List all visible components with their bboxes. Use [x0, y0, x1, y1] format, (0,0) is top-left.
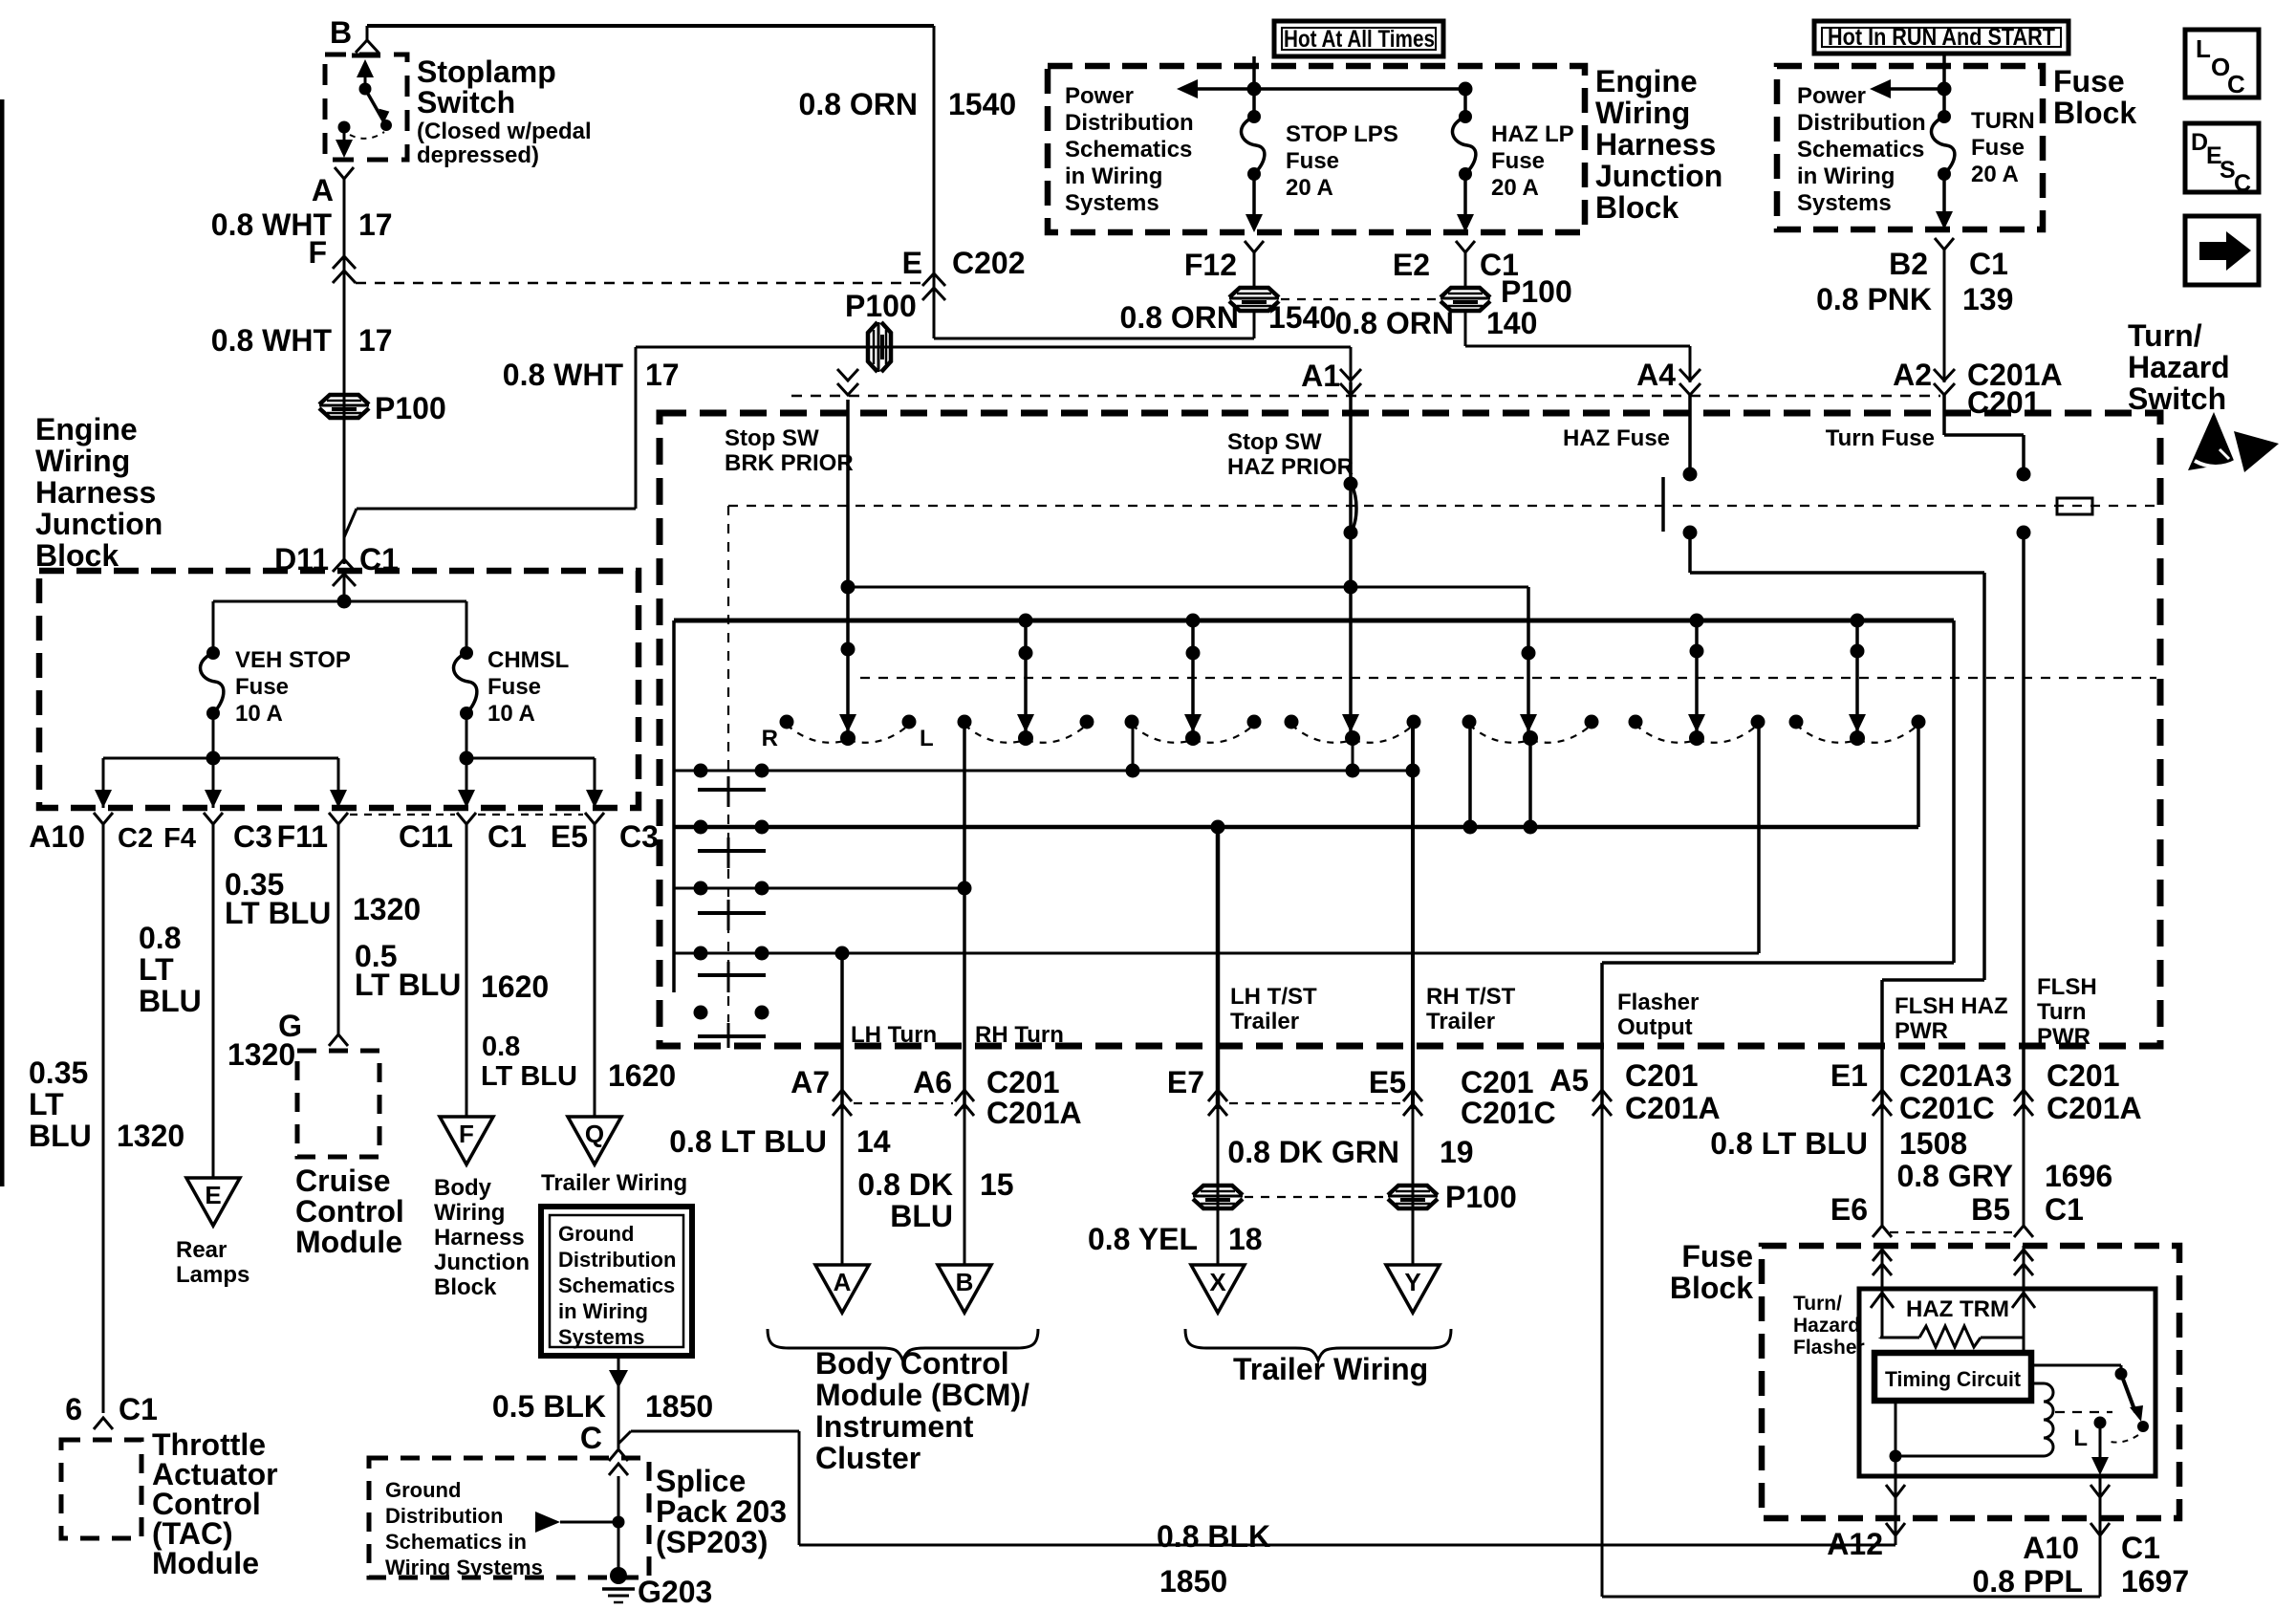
svg-text:Turn Fuse: Turn Fuse — [1826, 425, 1935, 451]
wire RH turn to BCM B — [964, 1109, 966, 1265]
svg-text:C201C: C201C — [1899, 1091, 1995, 1125]
wire B5 to timing box — [2023, 1338, 2025, 1353]
stoplamp switch upper contact bar — [352, 54, 380, 58]
wire HAZ fuse output to E1 riser — [1688, 533, 1692, 573]
dashed P100 mate (trailer) — [1245, 1196, 1386, 1198]
svg-text:Control: Control — [295, 1194, 404, 1229]
svg-text:1540: 1540 — [1268, 300, 1336, 335]
wire D11 into junction — [343, 571, 346, 601]
svg-text:HAZ TRM: HAZ TRM — [1906, 1296, 2009, 1322]
B5 entry chevrons — [2014, 1250, 2033, 1261]
svg-text:C1: C1 — [487, 819, 527, 854]
svg-text:A10: A10 — [2023, 1531, 2079, 1565]
feed wire from RUN/START box — [1942, 54, 1946, 113]
svg-text:C: C — [580, 1421, 602, 1455]
svg-text:A7: A7 — [791, 1065, 830, 1099]
set3 left to row A link — [1132, 722, 1135, 771]
stoplamp switch lower contact dot and arrow to A — [338, 121, 351, 134]
junction block output chevrons — [94, 813, 113, 824]
svg-text:STOP LPS: STOP LPS — [1286, 121, 1398, 147]
switch gang dashed line — [860, 677, 2156, 679]
wire RH Turn output — [963, 722, 966, 1109]
svg-text:Flasher: Flasher — [1793, 1337, 1865, 1359]
svg-text:Trailer Wiring: Trailer Wiring — [1233, 1352, 1428, 1386]
pin B2 / C1 chevron — [1935, 238, 1954, 250]
fuse CHMSL 10A — [460, 646, 473, 660]
svg-text:LH T/ST: LH T/ST — [1230, 984, 1317, 1010]
svg-text:C11: C11 — [399, 819, 453, 854]
svg-text:Systems: Systems — [1797, 190, 1892, 216]
wafer bar 1 — [698, 788, 766, 792]
svg-text:Splice: Splice — [656, 1464, 746, 1498]
svg-text:F4: F4 — [163, 823, 196, 854]
wafer dashed vertical — [727, 506, 729, 1022]
wire RH T/ST trailer output — [1411, 722, 1415, 1109]
svg-text:17: 17 — [645, 358, 680, 392]
svg-text:20 A: 20 A — [1971, 162, 2019, 187]
wire LH Turn output — [840, 953, 844, 1109]
svg-text:E7: E7 — [1167, 1065, 1204, 1099]
svg-text:E: E — [902, 246, 922, 280]
svg-text:C1: C1 — [2045, 1192, 2084, 1227]
svg-text:Distribution: Distribution — [385, 1504, 503, 1528]
svg-text:PWR: PWR — [2037, 1024, 2090, 1050]
svg-text:PWR: PWR — [1895, 1018, 1948, 1044]
svg-text:0.8 ORN: 0.8 ORN — [1120, 300, 1239, 335]
svg-text:Harness: Harness — [1595, 127, 1716, 162]
svg-text:TURN: TURN — [1971, 108, 2035, 134]
svg-text:LT BLU: LT BLU — [481, 1061, 577, 1092]
DESC reference icon — [2185, 123, 2259, 192]
svg-text:C: C — [2234, 170, 2251, 197]
fuse STOP LPS 20A — [1247, 110, 1261, 123]
svg-text:BLU: BLU — [890, 1199, 953, 1233]
wire flasher output to A10 loop — [1601, 1109, 1604, 1597]
svg-text:C201: C201 — [986, 1065, 1060, 1099]
svg-text:Body Control: Body Control — [815, 1346, 1009, 1381]
svg-text:C201: C201 — [1899, 1058, 1973, 1093]
svg-text:Block: Block — [2053, 96, 2136, 130]
svg-text:Stop SW: Stop SW — [725, 425, 819, 451]
bus dropper to set7 — [1855, 620, 1859, 725]
svg-text:0.8 LT BLU: 0.8 LT BLU — [1710, 1126, 1868, 1161]
svg-text:LT BLU: LT BLU — [355, 968, 461, 1002]
relay L contact — [2094, 1417, 2107, 1429]
svg-text:Engine: Engine — [35, 412, 138, 446]
wire B5 into flasher with up arrow — [2023, 1246, 2025, 1338]
connector C1 dashed line (fuse block) — [1890, 1231, 2016, 1233]
pin D11 / C1 chevrons — [333, 559, 356, 572]
E6 entry chevrons — [1873, 1250, 1892, 1261]
svg-text:0.8 DK: 0.8 DK — [857, 1167, 953, 1202]
HAZ fuse switch contacts — [1688, 395, 1692, 474]
flasher solid box — [1859, 1289, 2155, 1476]
svg-text:Trailer: Trailer — [1426, 1009, 1495, 1034]
bus dropper to set3 — [1191, 620, 1195, 725]
cruise control dashed box — [297, 1051, 379, 1157]
svg-text:Harness: Harness — [35, 475, 156, 510]
wire L out of flasher (A10) — [2099, 1475, 2102, 1597]
svg-text:140: 140 — [1486, 306, 1537, 340]
svg-text:VEH STOP: VEH STOP — [235, 647, 351, 673]
connector P100 on WHT horizontal — [868, 322, 877, 372]
svg-text:Stop SW: Stop SW — [1227, 429, 1322, 455]
svg-text:G: G — [278, 1009, 302, 1043]
Hot In RUN And START box — [1814, 21, 2069, 54]
flasher feed bus — [674, 619, 1954, 623]
svg-text:0.8 ORN: 0.8 ORN — [799, 87, 918, 121]
svg-text:Turn/: Turn/ — [1793, 1293, 1842, 1315]
ESD warning symbol — [2188, 412, 2235, 470]
wire F12 to ORN corner — [1253, 312, 1256, 338]
svg-text:E2: E2 — [1393, 248, 1430, 282]
triangle X (trailer) — [1191, 1265, 1245, 1313]
fuse HAZ LP 20A — [1459, 110, 1472, 123]
connector P100 on E2 wire — [1464, 252, 1467, 287]
svg-text:Trailer Wiring: Trailer Wiring — [541, 1170, 687, 1196]
svg-text:L: L — [2196, 34, 2211, 63]
svg-text:Trailer: Trailer — [1230, 1009, 1299, 1034]
contact set 2 — [958, 715, 972, 729]
connector C201 dashed mate (A7-A6) — [854, 1102, 953, 1104]
svg-text:1850: 1850 — [1159, 1564, 1227, 1599]
svg-text:C201A: C201A — [2047, 1091, 2142, 1125]
contact set 4 (hazard) — [1285, 715, 1299, 729]
svg-text:P100: P100 — [375, 391, 446, 425]
fuse block dashed box (top right) — [1777, 66, 2043, 229]
svg-text:Fuse: Fuse — [1681, 1239, 1753, 1273]
svg-text:C1: C1 — [2121, 1531, 2160, 1565]
svg-text:Ground: Ground — [385, 1478, 461, 1502]
wire BRK-HAZ priority link — [848, 586, 1528, 589]
splice pack dashed box — [369, 1458, 649, 1577]
svg-text:Junction: Junction — [434, 1250, 530, 1275]
svg-text:C201: C201 — [1625, 1058, 1699, 1093]
svg-text:C: C — [2227, 70, 2245, 98]
svg-text:F11: F11 — [277, 819, 328, 854]
svg-text:18: 18 — [1228, 1222, 1263, 1256]
svg-text:A5: A5 — [1549, 1063, 1589, 1098]
svg-text:Hazard: Hazard — [2128, 350, 2230, 384]
svg-text:1508: 1508 — [1899, 1126, 1967, 1161]
svg-text:0.8 WHT: 0.8 WHT — [211, 323, 333, 358]
connector C201 dashed mate (E7-E5) — [1229, 1102, 1401, 1104]
wire STOP LPS fuse output arrow — [1252, 177, 1256, 219]
svg-text:A3: A3 — [1973, 1058, 2012, 1093]
set4 center to row A link — [1352, 738, 1354, 771]
svg-text:A6: A6 — [913, 1065, 952, 1099]
svg-text:Cluster: Cluster — [815, 1441, 921, 1475]
svg-text:E5: E5 — [1369, 1065, 1406, 1099]
pin 6 / C1 chevron (TAC) — [94, 1418, 113, 1429]
relay blade — [2115, 1368, 2128, 1381]
wire HAZ LP feed — [1463, 89, 1467, 113]
svg-text:C3: C3 — [619, 819, 659, 854]
svg-text:19: 19 — [1440, 1135, 1474, 1169]
row B right riser to set7 right — [1917, 722, 1920, 827]
svg-text:FLSH HAZ: FLSH HAZ — [1895, 993, 2008, 1019]
svg-text:0.8 PNK: 0.8 PNK — [1816, 282, 1932, 316]
ground distribution schematics box — [541, 1207, 692, 1356]
relay mechanical dashed link — [2055, 1411, 2112, 1413]
svg-text:1697: 1697 — [2121, 1564, 2189, 1599]
triangle A (BCM) — [815, 1265, 869, 1313]
svg-text:depressed): depressed) — [417, 142, 539, 168]
row E dots — [694, 1006, 708, 1020]
svg-text:Fuse: Fuse — [487, 674, 541, 700]
svg-text:A1: A1 — [1301, 359, 1340, 393]
svg-text:X: X — [1209, 1268, 1226, 1296]
svg-text:Hot At All Times: Hot At All Times — [1284, 26, 1435, 53]
timing circuit box — [1874, 1353, 2031, 1401]
svg-text:Body: Body — [434, 1175, 492, 1201]
wire A to F (0.8 WHT 17) — [343, 179, 346, 564]
svg-text:HAZ Fuse: HAZ Fuse — [1563, 425, 1670, 451]
svg-text:139: 139 — [1962, 282, 2013, 316]
bus dropper to set6 — [1695, 620, 1699, 725]
svg-text:1850: 1850 — [645, 1389, 713, 1424]
svg-text:F: F — [459, 1120, 474, 1148]
Hot At All Times box — [1274, 21, 1443, 56]
svg-text:Harness: Harness — [434, 1225, 525, 1251]
turn/hazard switch dashed box — [660, 413, 2160, 1046]
svg-text:RH Turn: RH Turn — [975, 1022, 1064, 1048]
svg-text:10 A: 10 A — [487, 701, 535, 727]
svg-text:HAZ LP: HAZ LP — [1491, 121, 1574, 147]
svg-text:Lamps: Lamps — [176, 1262, 249, 1288]
fuse VEH STOP 10A — [206, 646, 220, 660]
connector C11 dashed mate line — [350, 814, 455, 816]
svg-text:P100: P100 — [1445, 1180, 1517, 1214]
svg-text:Schematics in: Schematics in — [385, 1530, 527, 1554]
svg-text:in Wiring: in Wiring — [558, 1299, 648, 1323]
distribution arrow left (right box) — [1885, 87, 1944, 91]
svg-text:Junction: Junction — [1595, 159, 1722, 193]
VEH STOP output branch — [212, 713, 215, 794]
wire WHT horizontal to A1 — [636, 346, 1351, 349]
svg-text:1696: 1696 — [2045, 1159, 2112, 1193]
svg-text:C202: C202 — [952, 246, 1026, 280]
svg-text:A4: A4 — [1636, 358, 1676, 392]
wire FLSH HAZ PWR corner to E1 — [1882, 978, 1984, 982]
svg-text:Fuse: Fuse — [1286, 148, 1339, 174]
svg-text:0.8: 0.8 — [139, 921, 181, 955]
wire C1 (0.5 LT BLU 1620) to body junction — [466, 824, 468, 1117]
svg-text:B2: B2 — [1889, 247, 1928, 281]
svg-text:17: 17 — [358, 207, 393, 242]
svg-text:C201C: C201C — [1461, 1096, 1556, 1130]
contact set 6 — [1629, 715, 1643, 729]
flasher bus output loop — [1952, 620, 1956, 963]
stoplamp switch pivot dot — [359, 83, 372, 96]
svg-text:0.5 BLK: 0.5 BLK — [492, 1389, 606, 1424]
svg-text:Distribution: Distribution — [558, 1248, 676, 1272]
svg-text:Schematics: Schematics — [1797, 137, 1924, 163]
wire E5 (0.8 LT BLU 1620) to trailer wiring — [594, 824, 596, 1117]
svg-text:B5: B5 — [1971, 1192, 2010, 1227]
svg-text:0.8 PPL: 0.8 PPL — [1972, 1564, 2083, 1599]
wire E5 trailer — [1412, 1109, 1415, 1265]
stoplamp switch blade contact dot — [380, 120, 392, 131]
pin F12 chevron — [1245, 241, 1264, 252]
svg-text:10 A: 10 A — [235, 701, 283, 727]
engine junction block dashed box — [39, 571, 639, 808]
svg-text:B: B — [330, 15, 352, 50]
wire LH T/ST trailer output — [1216, 827, 1221, 1109]
svg-text:Distribution: Distribution — [1065, 110, 1194, 136]
svg-text:Rear: Rear — [176, 1237, 227, 1263]
connector P100 on E7 wire — [1193, 1186, 1243, 1195]
wafer bar 2 — [698, 849, 766, 853]
svg-text:(SP203): (SP203) — [656, 1525, 768, 1559]
svg-text:Cruise: Cruise — [295, 1164, 391, 1198]
connector P100 on E5 wire — [1388, 1186, 1438, 1195]
svg-text:0.8: 0.8 — [482, 1032, 520, 1062]
svg-text:0.8 WHT: 0.8 WHT — [503, 358, 624, 392]
wire A12 out of flasher — [1895, 1456, 1897, 1545]
svg-text:Schematics: Schematics — [1065, 137, 1192, 163]
fuse TURN 20A — [1938, 110, 1951, 123]
svg-text:Junction: Junction — [35, 507, 162, 541]
svg-text:Block: Block — [1670, 1271, 1753, 1305]
fuse block dashed box (bottom) — [1762, 1246, 2179, 1518]
relay coil — [2031, 1382, 2044, 1385]
power distribution dashed box (engine junction block) — [1048, 66, 1585, 232]
ground G203 — [610, 1567, 627, 1584]
svg-text:Ground: Ground — [558, 1222, 634, 1246]
wafer bar 5 — [698, 1034, 766, 1038]
junction feed horizontal — [213, 600, 466, 603]
svg-text:15: 15 — [980, 1167, 1014, 1202]
trailer brace — [1185, 1329, 1451, 1360]
connector chevron at B — [356, 40, 379, 53]
svg-text:Wiring Systems: Wiring Systems — [385, 1556, 543, 1579]
svg-text:Output: Output — [1617, 1014, 1693, 1040]
E6 chevron — [1873, 1226, 1892, 1237]
wafer bar 3 — [698, 911, 766, 915]
wire F12 to P100 — [1253, 252, 1256, 287]
connector C201 dashed line (top of switch) — [791, 395, 1940, 398]
svg-text:C1: C1 — [119, 1392, 158, 1426]
svg-text:0.8 ORN: 0.8 ORN — [1335, 306, 1454, 340]
svg-text:0.8 DK GRN: 0.8 DK GRN — [1227, 1135, 1399, 1169]
svg-text:6: 6 — [65, 1392, 82, 1426]
svg-text:1620: 1620 — [481, 969, 549, 1004]
wire A3 to B5 — [2023, 1109, 2025, 1226]
Turn fuse contacts — [2017, 468, 2031, 482]
dashed P100 mate line — [1281, 298, 1439, 300]
svg-text:Wiring: Wiring — [1595, 96, 1690, 130]
svg-text:L: L — [2073, 1425, 2088, 1451]
svg-text:20 A: 20 A — [1286, 175, 1333, 201]
svg-text:Hazard: Hazard — [1793, 1315, 1860, 1337]
svg-text:Stoplamp: Stoplamp — [417, 54, 556, 89]
svg-text:Module: Module — [295, 1225, 402, 1259]
wire 0.8 ORN 1540 riser — [933, 26, 936, 338]
svg-text:E: E — [205, 1181, 221, 1209]
svg-text:Schematics: Schematics — [558, 1273, 675, 1297]
svg-text:Wiring: Wiring — [434, 1200, 505, 1226]
wire B2 to A2 (0.8 PNK 139) — [1943, 250, 1946, 382]
svg-text:HAZ PRIOR: HAZ PRIOR — [1227, 454, 1354, 480]
wire F4 (0.8 LT BLU 1320) to rear lamps — [212, 824, 215, 1178]
svg-text:E6: E6 — [1830, 1192, 1868, 1227]
svg-text:0.8 LT BLU: 0.8 LT BLU — [669, 1124, 827, 1159]
wire - B terminal to ORN drop (top horizontal) — [367, 24, 934, 28]
svg-text:Module (BCM)/: Module (BCM)/ — [815, 1378, 1029, 1412]
row A wire — [674, 770, 1413, 772]
svg-text:0.8 YEL: 0.8 YEL — [1088, 1222, 1198, 1256]
svg-text:Wiring: Wiring — [35, 444, 130, 478]
svg-text:Systems: Systems — [1065, 190, 1159, 216]
svg-text:Turn/: Turn/ — [2128, 318, 2202, 353]
stoplamp switch fixed contact arrow — [364, 73, 367, 88]
wafer bar 4 — [698, 973, 766, 977]
svg-text:Fuse: Fuse — [2053, 64, 2125, 98]
stoplamp switch travel arc (dashed) — [350, 132, 384, 139]
svg-text:Switch: Switch — [2128, 381, 2226, 416]
wire BRK PRIOR chevron entry — [837, 383, 858, 395]
page left border mark — [0, 99, 5, 1186]
svg-text:Y: Y — [1404, 1268, 1420, 1296]
svg-text:P100: P100 — [845, 289, 917, 323]
wire BRK PRIOR dropper — [846, 400, 850, 725]
wire timing to relay pivot — [2031, 1364, 2121, 1367]
row B wire — [674, 825, 1918, 830]
LOC reference icon — [2185, 30, 2259, 98]
triangle Y (trailer) — [1386, 1265, 1440, 1313]
svg-text:LT BLU: LT BLU — [225, 896, 331, 930]
svg-text:1320: 1320 — [353, 892, 421, 926]
svg-text:Fuse: Fuse — [235, 674, 289, 700]
row C wire — [674, 887, 964, 890]
svg-text:Block: Block — [434, 1274, 497, 1300]
svg-text:C201A: C201A — [1625, 1091, 1721, 1125]
svg-text:Pack 203: Pack 203 — [656, 1494, 787, 1529]
wire E1 to E6 — [1881, 1109, 1884, 1226]
svg-text:Hot In RUN And START: Hot In RUN And START — [1828, 24, 2055, 51]
svg-text:Engine: Engine — [1595, 64, 1698, 98]
distribution arrow to left — [1192, 87, 1465, 91]
svg-text:(Closed w/pedal: (Closed w/pedal — [417, 119, 592, 144]
svg-text:L: L — [920, 726, 934, 751]
pointer arrow to splice — [560, 1521, 617, 1524]
stoplamp switch blade — [365, 89, 384, 122]
row D riser to set6 right — [1757, 722, 1761, 953]
stoplamp switch dashed box — [325, 54, 407, 160]
wire E2 down/over to A4 — [1464, 312, 1467, 346]
triangle Q trailer wiring — [568, 1117, 621, 1164]
svg-text:C2: C2 — [118, 823, 153, 854]
svg-text:R: R — [762, 726, 778, 751]
svg-text:Power: Power — [1065, 83, 1134, 109]
svg-text:C201A: C201A — [986, 1096, 1082, 1130]
TAC module dashed box — [61, 1440, 141, 1538]
svg-text:1540: 1540 — [948, 87, 1016, 121]
BCM brace — [768, 1329, 1038, 1360]
pin A3 chevron — [2014, 1090, 2033, 1101]
wire FLSH Turn PWR (A3) straight down — [2022, 533, 2025, 1109]
svg-text:0.8 GRY: 0.8 GRY — [1896, 1159, 2013, 1193]
next-page arrow icon — [2185, 216, 2259, 285]
wire E6 into flasher with up arrow — [1881, 1246, 1884, 1338]
svg-text:1620: 1620 — [608, 1058, 676, 1093]
bus dropper to set2 — [1024, 620, 1028, 725]
row D wire — [674, 952, 1759, 955]
triangle B (BCM) — [938, 1265, 991, 1313]
triangle E rear lamps — [186, 1178, 240, 1226]
svg-text:E1: E1 — [1830, 1058, 1868, 1093]
